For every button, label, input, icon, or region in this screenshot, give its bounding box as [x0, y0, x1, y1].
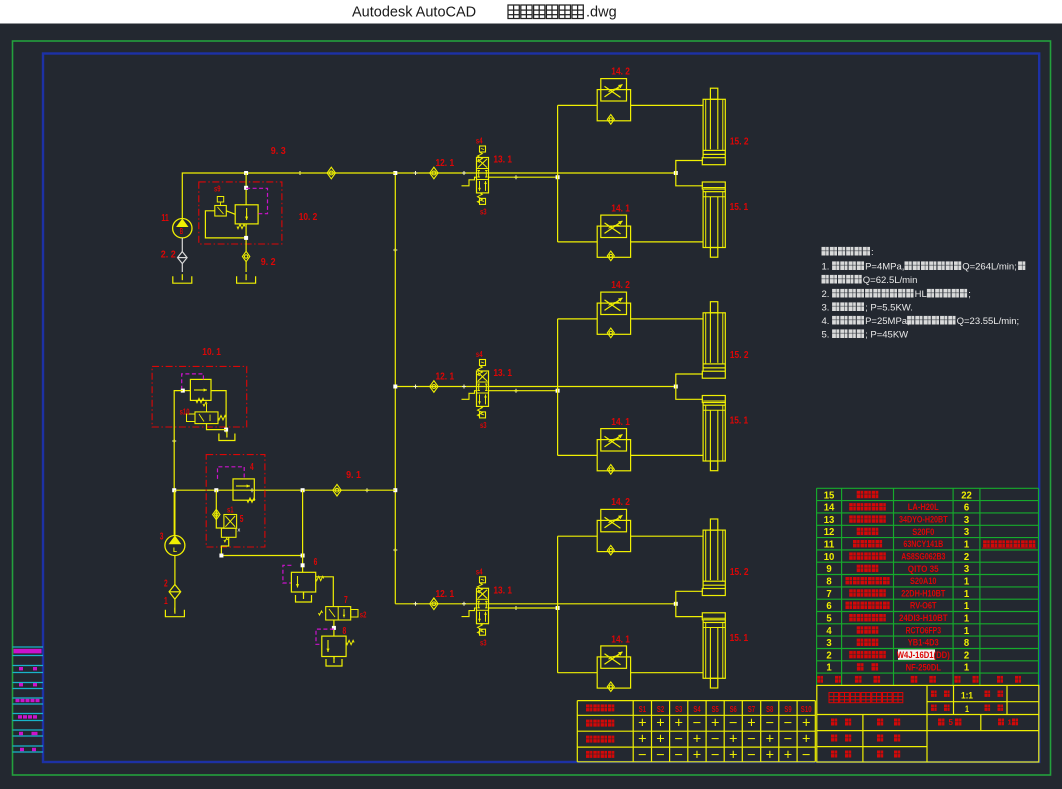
- svg-text:24DI3-H10BT: 24DI3-H10BT: [899, 613, 948, 624]
- svg-text:15. 1: 15. 1: [730, 416, 749, 427]
- title block: [817, 685, 1039, 762]
- 7 to 8: [333, 620, 335, 636]
- svg-text:+: +: [784, 747, 792, 763]
- group 2: throttle valve 14.2: [597, 292, 630, 338]
- svg-text:1: 1: [826, 662, 831, 674]
- svg-text:1:1: 1:1: [961, 691, 973, 701]
- check valve 9.3: [327, 167, 335, 179]
- svg-text:S5: S5: [712, 704, 719, 714]
- group 3: directional valve 13.1: [462, 577, 489, 635]
- svg-text:+: +: [729, 747, 737, 763]
- svg-text:9. 1: 9. 1: [346, 470, 361, 481]
- svg-text:11: 11: [824, 539, 835, 551]
- manifold line below 4/5: [221, 555, 302, 557]
- svg-text:1: 1: [964, 613, 969, 625]
- svg-text:3: 3: [964, 526, 969, 538]
- svg-text:−: −: [711, 747, 719, 763]
- svg-text:3: 3: [964, 563, 969, 575]
- group 3: supply line: [395, 603, 676, 605]
- svg-text:14. 1: 14. 1: [611, 204, 630, 215]
- wire pump11 to main line: [182, 173, 395, 219]
- signature rows: [831, 719, 837, 726]
- svg-text:10. 2: 10. 2: [299, 212, 318, 223]
- svg-text:10. 1: 10. 1: [202, 347, 221, 358]
- svg-text:8: 8: [343, 626, 347, 637]
- svg-text:−: −: [656, 747, 664, 763]
- group 3: cylinder 15.2: [702, 519, 725, 596]
- svg-text:7: 7: [826, 588, 831, 600]
- svg-text:−: −: [729, 715, 737, 731]
- svg-text:2.: 2.: [822, 289, 830, 300]
- svg-text:5: 5: [949, 718, 954, 727]
- svg-text:S3: S3: [675, 704, 682, 714]
- svg-text:3: 3: [826, 637, 831, 649]
- svg-text:+: +: [766, 747, 774, 763]
- svg-text:1.: 1.: [822, 262, 830, 273]
- junction dots top line: [244, 171, 248, 175]
- pump 11: [173, 219, 192, 238]
- valve 5 (s1): [224, 515, 237, 529]
- svg-text:+: +: [693, 747, 701, 763]
- svg-text:+: +: [747, 715, 755, 731]
- svg-text:HL: HL: [915, 289, 927, 300]
- svg-text:; P=45KW: ; P=45KW: [865, 330, 908, 341]
- solenoid truth table: [577, 700, 815, 702]
- svg-text:;: ;: [968, 289, 971, 300]
- group 2: cylinder 15.1: [702, 396, 725, 471]
- svg-text:2: 2: [826, 649, 831, 661]
- svg-text:1: 1: [964, 576, 969, 588]
- svg-text:−: −: [784, 715, 792, 731]
- svg-text:AS8SG062B3: AS8SG062B3: [901, 552, 945, 563]
- svg-text:−: −: [747, 747, 755, 763]
- svg-text:Q=62.5L/min: Q=62.5L/min: [863, 275, 918, 286]
- group 2: check valve 12.1: [430, 381, 438, 393]
- svg-text:2: 2: [964, 649, 969, 661]
- svg-text:5: 5: [826, 613, 831, 625]
- svg-text:+: +: [711, 715, 719, 731]
- scale cells: [931, 691, 937, 697]
- svg-text:3.: 3.: [822, 303, 830, 314]
- group 3: throttle valve 14.1: [597, 646, 630, 692]
- svg-text:−: −: [766, 715, 774, 731]
- svg-text:S20A10: S20A10: [910, 576, 937, 587]
- svg-text:Q=23.55L/min;: Q=23.55L/min;: [957, 316, 1020, 327]
- svg-text:13. 1: 13. 1: [493, 368, 512, 379]
- group 2: B line to throttle bus: [489, 390, 558, 392]
- 10.1 main valve: [190, 379, 211, 400]
- svg-text:LA-H20L: LA-H20L: [908, 502, 939, 513]
- svg-text:15. 2: 15. 2: [730, 567, 749, 578]
- svg-text:15. 1: 15. 1: [730, 633, 749, 644]
- svg-text:12. 1: 12. 1: [436, 372, 455, 383]
- svg-text:P=4MPa,: P=4MPa,: [865, 262, 904, 273]
- svg-text:9. 2: 9. 2: [261, 257, 276, 268]
- svg-text:S7: S7: [748, 704, 755, 714]
- svg-text:S9: S9: [784, 704, 791, 714]
- svg-text:+: +: [802, 715, 810, 731]
- group 1: B line to throttle bus: [489, 176, 558, 178]
- svg-text:13. 1: 13. 1: [493, 155, 512, 166]
- svg-text:6: 6: [964, 502, 969, 514]
- svg-text:2: 2: [164, 579, 168, 590]
- svg-text:22: 22: [961, 489, 972, 501]
- group 1: supply line: [395, 172, 676, 174]
- svg-text:1: 1: [1008, 718, 1012, 727]
- check bypass line w/ diamond: [216, 490, 224, 528]
- svg-text:63NCY141B: 63NCY141B: [903, 539, 943, 550]
- line from 5 down to manifold: [221, 537, 228, 555]
- svg-text:x: x: [238, 528, 241, 534]
- svg-text:−: −: [693, 715, 701, 731]
- tank 1: [165, 610, 184, 617]
- svg-text:14. 2: 14. 2: [611, 497, 630, 508]
- svg-text:−: −: [674, 731, 682, 747]
- svg-text:6: 6: [826, 600, 831, 612]
- line 9.1: [174, 489, 395, 491]
- svg-text:NF-250DL: NF-250DL: [906, 662, 942, 673]
- svg-text:−: −: [784, 731, 792, 747]
- svg-text:12: 12: [824, 526, 835, 538]
- svg-text:RCTO6FP3: RCTO6FP3: [906, 625, 941, 636]
- svg-text:6: 6: [314, 557, 318, 568]
- svg-text:14. 1: 14. 1: [611, 634, 630, 645]
- svg-text:13: 13: [824, 514, 835, 526]
- svg-text:15. 1: 15. 1: [730, 202, 749, 213]
- check valve 9.2 + tank: [242, 251, 249, 261]
- svg-text:9: 9: [826, 563, 831, 575]
- valve 4 body: [233, 479, 254, 500]
- 10.1 pilot solenoid s10: [195, 412, 218, 424]
- svg-text:−: −: [638, 747, 646, 763]
- svg-text:−: −: [802, 747, 810, 763]
- group 1: throttle bus: [557, 105, 559, 242]
- svg-text:−: −: [747, 731, 755, 747]
- svg-text:1: 1: [964, 600, 969, 612]
- left title strip: [13, 646, 44, 648]
- svg-text:; P=5.5KW.: ; P=5.5KW.: [865, 303, 913, 314]
- svg-text:14: 14: [824, 502, 835, 514]
- svg-text:8: 8: [964, 637, 969, 649]
- svg-text:1: 1: [964, 662, 969, 674]
- svg-text::: :: [871, 247, 874, 258]
- 10.1 magenta pilot dashes: [182, 374, 204, 389]
- svg-text:s3: s3: [480, 638, 487, 648]
- s10 out: [207, 424, 227, 430]
- group 2: step to cylinders: [674, 385, 678, 389]
- svg-text:1: 1: [964, 588, 969, 600]
- svg-text:S1: S1: [639, 704, 646, 714]
- group 1: directional valve 13.1: [462, 146, 489, 204]
- svg-text:+: +: [802, 731, 810, 747]
- group 1: check valve 12.1: [430, 167, 438, 179]
- svg-text:+: +: [729, 731, 737, 747]
- group 1: cylinder 15.2: [702, 88, 725, 165]
- svg-text:11: 11: [161, 213, 169, 224]
- BOM parts table: [817, 487, 1039, 489]
- svg-text:+: +: [656, 731, 664, 747]
- relief valve 8: [316, 629, 334, 644]
- svg-text:S8: S8: [766, 704, 773, 714]
- suction filter 2.2: [181, 238, 183, 252]
- group 1: throttle valve 14.1: [597, 215, 630, 261]
- 4 magenta dashed box: [218, 467, 245, 479]
- svg-text:34DYO-H20BT: 34DYO-H20BT: [899, 515, 948, 526]
- svg-text:P=25MPa,: P=25MPa,: [865, 316, 910, 327]
- svg-text:14. 2: 14. 2: [611, 280, 630, 291]
- svg-text:12. 1: 12. 1: [436, 158, 455, 169]
- svg-text:Q=264L/min;: Q=264L/min;: [962, 262, 1017, 273]
- svg-text:s9: s9: [214, 184, 221, 194]
- svg-text:12. 1: 12. 1: [436, 589, 455, 600]
- group 3: throttle bus: [557, 536, 559, 673]
- svg-text:1: 1: [964, 625, 969, 637]
- truth row 3: [586, 751, 592, 758]
- svg-text:s1: s1: [227, 505, 234, 515]
- title bar: [0, 0, 1062, 24]
- svg-text:s3: s3: [480, 207, 487, 217]
- svg-text:13. 1: 13. 1: [493, 585, 512, 596]
- svg-text:YB1-4D3: YB1-4D3: [908, 638, 939, 649]
- 6 to 7: [316, 577, 334, 607]
- svg-text:S2: S2: [657, 704, 664, 714]
- svg-text:s4: s4: [476, 349, 483, 359]
- svg-text:s3: s3: [480, 420, 487, 430]
- group 3: check valve 12.1: [430, 598, 438, 610]
- svg-text:Autodesk AutoCAD: Autodesk AutoCAD: [352, 5, 476, 21]
- svg-text:W4J-16D1(DD): W4J-16D1(DD): [897, 650, 950, 661]
- svg-text:10: 10: [824, 551, 835, 563]
- svg-text:4.: 4.: [822, 316, 830, 327]
- 10.2 internal loop: [205, 211, 246, 238]
- svg-text:1: 1: [964, 539, 969, 551]
- svg-text:+: +: [693, 731, 701, 747]
- 10.1 right out to tank: [211, 391, 226, 433]
- relief valve block 10.2 (red dash box): [199, 182, 282, 244]
- truth row 2: [586, 736, 592, 743]
- svg-text:−: −: [674, 747, 682, 763]
- svg-text:B: B: [180, 226, 183, 236]
- svg-text:3: 3: [964, 514, 969, 526]
- 10.2 vertical line through: [245, 173, 247, 205]
- svg-text:S10: S10: [801, 704, 812, 714]
- svg-text:3: 3: [160, 532, 164, 543]
- svg-text:QITO 35: QITO 35: [908, 564, 940, 575]
- group 2: directional valve 13.1: [462, 360, 489, 418]
- group 1: throttle valve 14.2: [597, 79, 630, 125]
- svg-text:s4: s4: [476, 566, 483, 576]
- 10.2 main valve: [235, 205, 258, 224]
- group 2: cylinder 15.2: [702, 302, 725, 379]
- group 1: cylinder 15.1: [702, 182, 725, 257]
- svg-text:15: 15: [824, 489, 835, 501]
- sheet count 共5张 / 第1张: [938, 719, 944, 726]
- pump 3: [165, 536, 185, 556]
- svg-text:S6: S6: [730, 704, 737, 714]
- svg-text:2. 2: 2. 2: [161, 250, 176, 261]
- group 3: B line to throttle bus: [489, 607, 558, 609]
- svg-text:+: +: [638, 715, 646, 731]
- svg-text:s4: s4: [476, 136, 483, 146]
- relief valve 6: [283, 565, 292, 583]
- svg-text:15. 2: 15. 2: [730, 136, 749, 147]
- group 2: throttle valve 14.1: [597, 429, 630, 475]
- svg-text:8: 8: [826, 576, 831, 588]
- svg-text:5.: 5.: [822, 330, 830, 341]
- drawing title 液压系统原理图: [829, 693, 839, 703]
- svg-text:4: 4: [250, 462, 254, 473]
- suction filter 2: [174, 556, 176, 585]
- main pressure bus: [394, 173, 396, 604]
- svg-text:9. 3: 9. 3: [271, 146, 286, 157]
- truth row 1: [586, 720, 592, 727]
- group 3: cylinder 15.1: [702, 613, 725, 688]
- svg-text:+: +: [674, 715, 682, 731]
- tank below filter 2.2: [173, 276, 192, 283]
- point ticks: [298, 171, 302, 175]
- group 2: throttle bus: [557, 319, 559, 456]
- svg-text:14. 1: 14. 1: [611, 417, 630, 428]
- svg-text:7: 7: [344, 595, 348, 606]
- svg-text:+: +: [766, 731, 774, 747]
- svg-text:1: 1: [164, 596, 168, 607]
- 10.2 pilot solenoid valve s9: [215, 206, 227, 217]
- svg-text:s10: s10: [180, 407, 190, 417]
- header 电磁铁号: [586, 704, 592, 711]
- group 3: step to cylinders: [674, 602, 678, 606]
- svg-text:−: −: [711, 731, 719, 747]
- svg-text:S4: S4: [693, 704, 700, 714]
- svg-text:.dwg: .dwg: [586, 5, 617, 21]
- svg-text:1: 1: [965, 704, 969, 714]
- sequence valve block 4 (red dash box): [206, 455, 265, 547]
- svg-text:s2: s2: [360, 610, 367, 620]
- svg-text:14. 2: 14. 2: [611, 66, 630, 77]
- svg-text:15. 2: 15. 2: [730, 350, 749, 361]
- svg-text:22DH-H10BT: 22DH-H10BT: [901, 588, 945, 599]
- group 1: step to cylinders: [674, 171, 678, 175]
- svg-text:4: 4: [826, 625, 831, 637]
- relief valve block 10.1 (red dash box): [152, 366, 247, 427]
- svg-text:S20F0: S20F0: [912, 527, 934, 538]
- solenoid valve 7: [326, 607, 351, 620]
- svg-text:RV-O6T: RV-O6T: [910, 601, 937, 612]
- svg-text:+: +: [638, 731, 646, 747]
- svg-text:2: 2: [964, 551, 969, 563]
- technical parameters text: [822, 247, 829, 256]
- svg-text:L: L: [173, 547, 177, 554]
- 10.1 left connection: [183, 390, 191, 392]
- svg-text:5: 5: [240, 514, 244, 525]
- group 3: throttle valve 14.2: [597, 509, 630, 555]
- group 2: supply line: [395, 386, 676, 388]
- svg-text:+: +: [656, 715, 664, 731]
- 10.2 pilot dashed line (magenta): [246, 188, 267, 213]
